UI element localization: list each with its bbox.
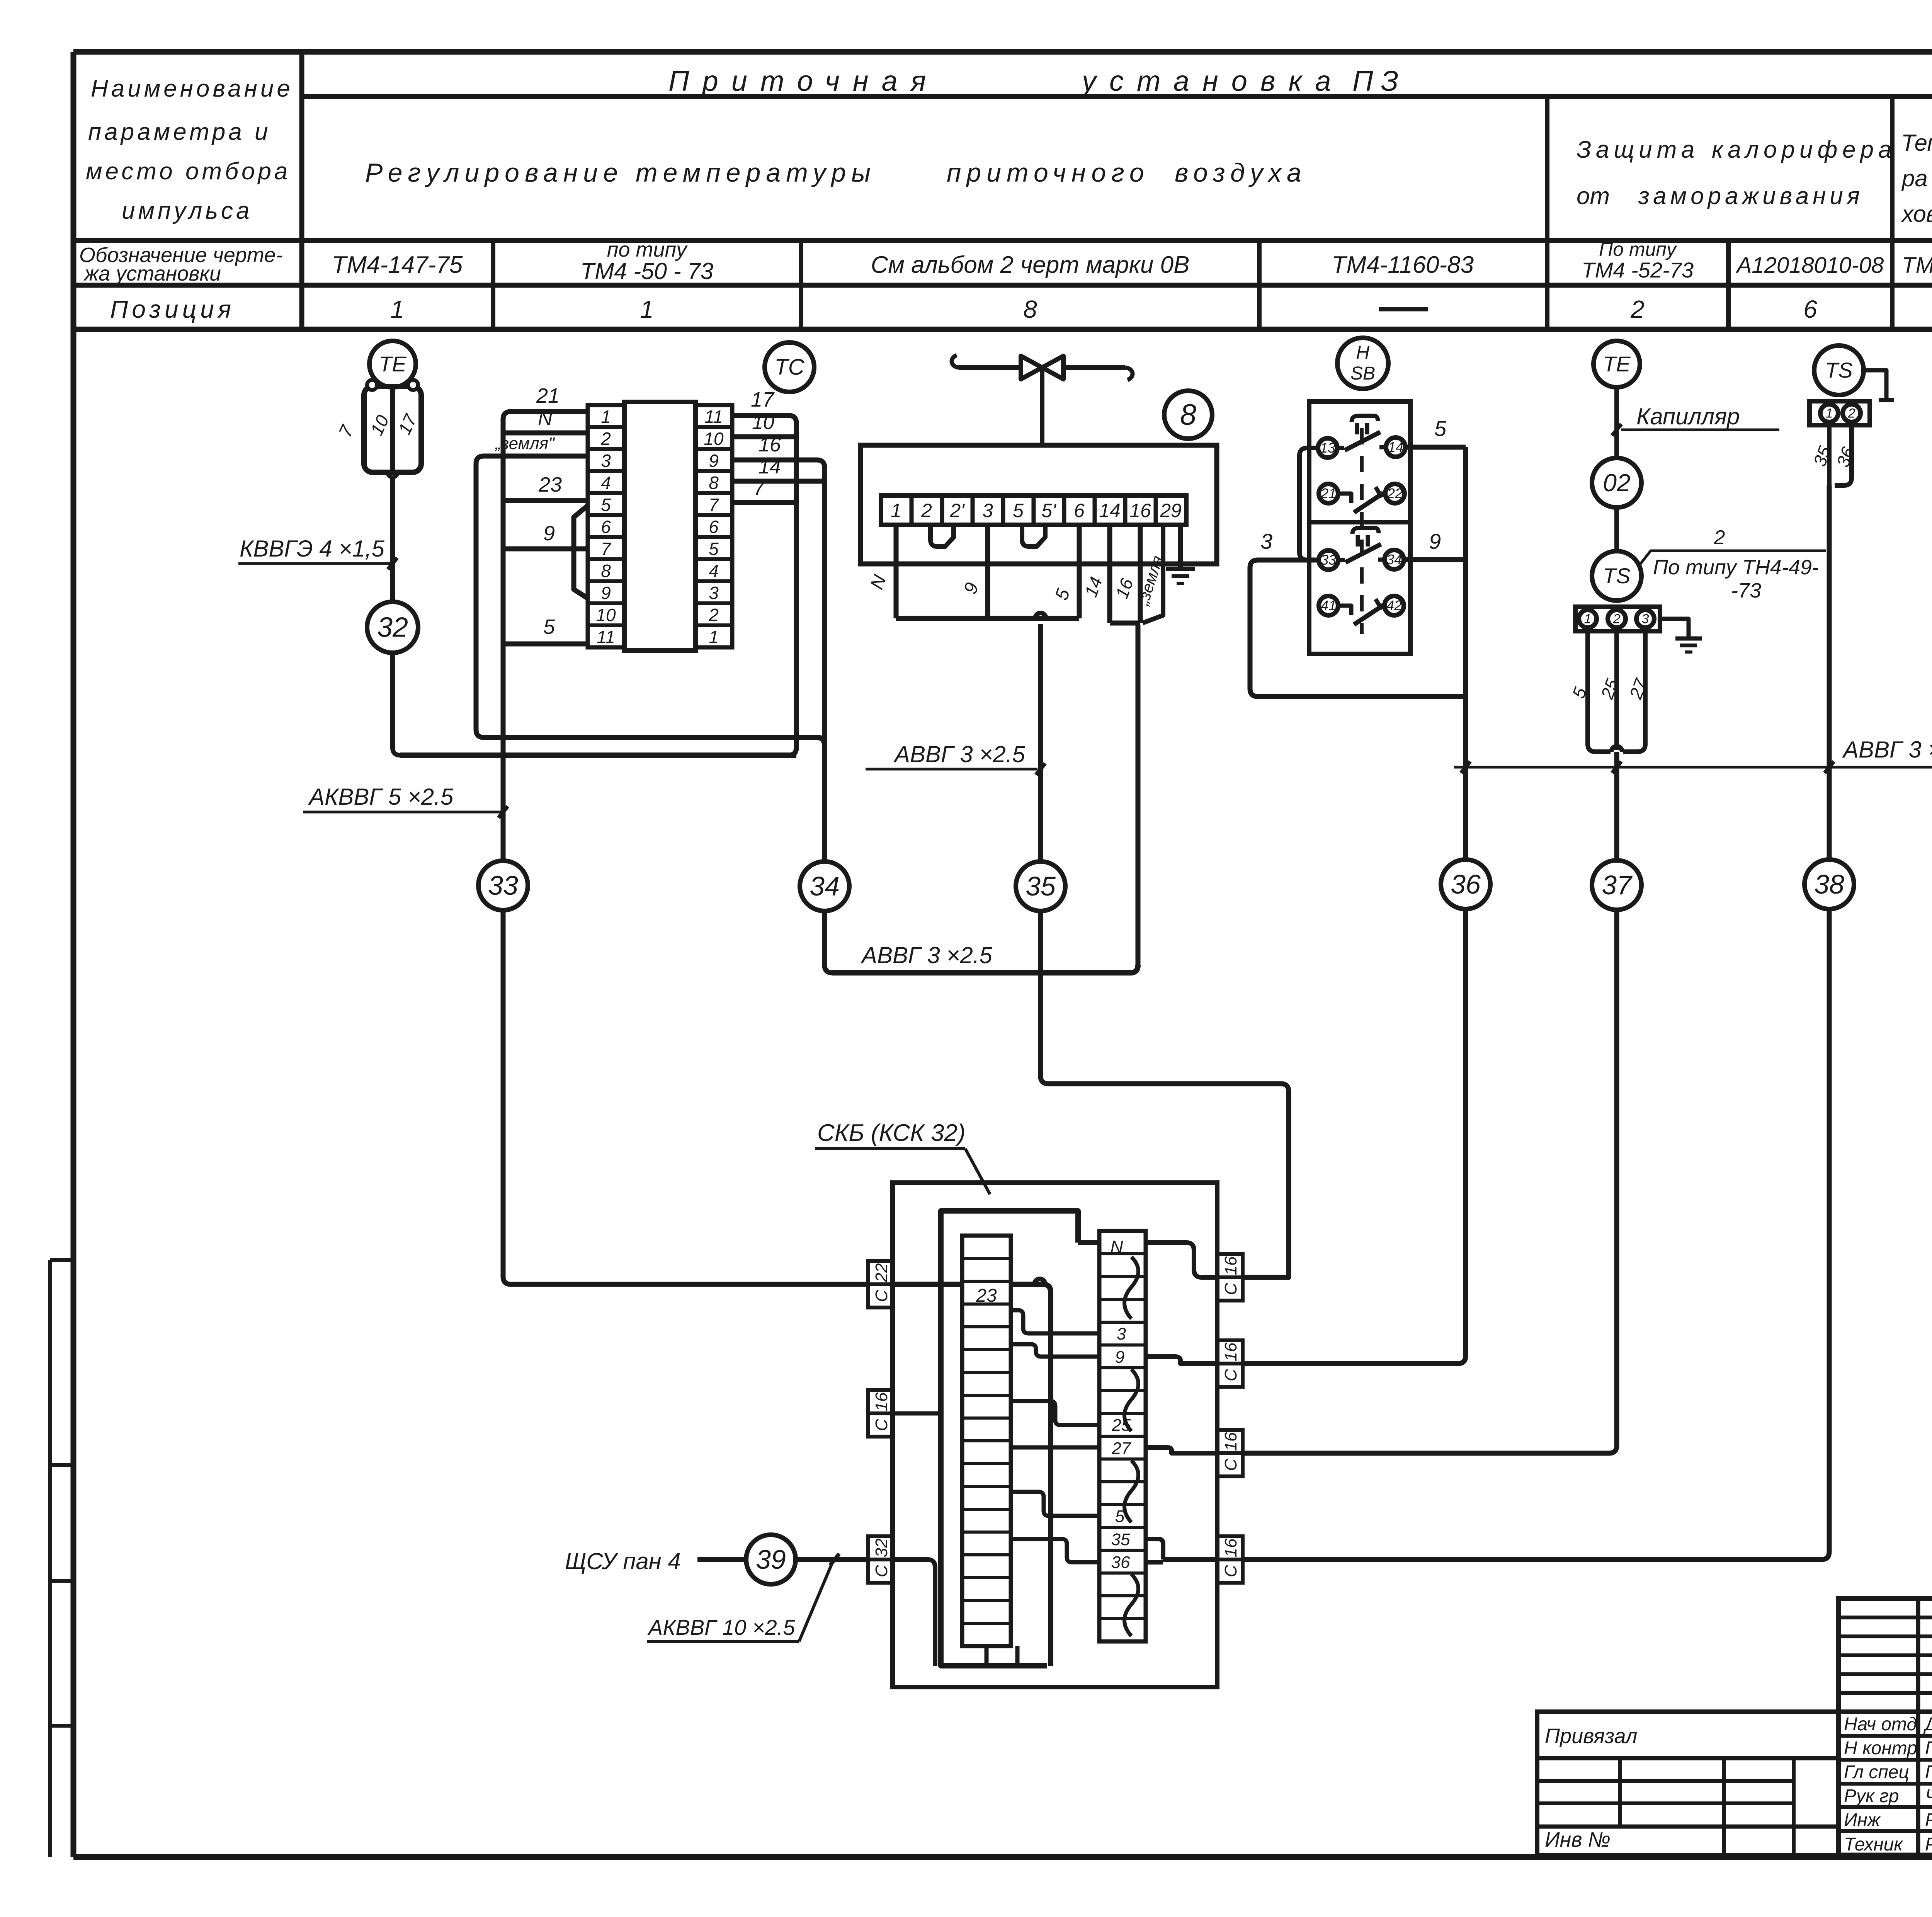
wire to circle 39 bbox=[697, 1557, 746, 1562]
svg-text:замораживания: замораживания bbox=[1638, 183, 1864, 209]
svg-text:16: 16 bbox=[1221, 1432, 1240, 1451]
cable circle 38 bbox=[1804, 860, 1854, 909]
svg-text:приточного: приточного bbox=[947, 158, 1150, 187]
svg-text:С: С bbox=[872, 1418, 891, 1431]
svg-text:См альбом 2 черт марки 0В: См альбом 2 черт марки 0В bbox=[871, 252, 1190, 278]
dash in position row bbox=[1379, 307, 1428, 312]
svg-text:6: 6 bbox=[1074, 500, 1085, 521]
svg-text:9: 9 bbox=[543, 522, 555, 545]
valve stem wire bbox=[1040, 368, 1044, 445]
wire 7 from TC right bbox=[732, 500, 796, 505]
svg-text:А12018010-08: А12018010-08 bbox=[1736, 253, 1884, 278]
crossing wire to 5 cell bbox=[1011, 1492, 1099, 1516]
svg-text:СКБ (КСК 32): СКБ (КСК 32) bbox=[817, 1120, 966, 1146]
ground symbol TS bbox=[1675, 637, 1702, 641]
svg-text:ТМ4-142-75: ТМ4-142-75 bbox=[1902, 253, 1932, 278]
svg-text:5: 5 bbox=[601, 495, 611, 515]
svg-text:С: С bbox=[1221, 1369, 1240, 1381]
svg-text:16: 16 bbox=[1129, 500, 1151, 521]
svg-text:Инв №: Инв № bbox=[1545, 1828, 1611, 1851]
wire 23 from TC pin5 bbox=[503, 498, 588, 503]
cable circle 32 bbox=[367, 602, 418, 653]
svg-text:АВВГ 3 ×2.5: АВВГ 3 ×2.5 bbox=[893, 741, 1025, 767]
svg-text:ТМ4-147-75: ТМ4-147-75 bbox=[332, 252, 463, 278]
svg-text:32: 32 bbox=[872, 1539, 891, 1558]
svg-text:Позиция: Позиция bbox=[110, 295, 235, 323]
svg-text:Долотов: Долотов bbox=[1923, 1714, 1932, 1735]
svg-text:Регулирование: Регулирование bbox=[365, 158, 623, 187]
pushbutton box upper bbox=[1309, 402, 1410, 522]
svg-text:5': 5' bbox=[1041, 500, 1056, 521]
TS right bracket mark bbox=[1864, 370, 1886, 398]
table grid bbox=[299, 52, 304, 329]
svg-text:7: 7 bbox=[335, 422, 358, 441]
wire cable-34 riser from 14-16 junction bbox=[1136, 625, 1141, 966]
strip bottom stub 2 bbox=[1015, 1646, 1020, 1666]
connector C22 left bbox=[868, 1261, 893, 1284]
svg-text:ЩСУ пан 4: ЩСУ пан 4 bbox=[565, 1548, 681, 1574]
box 8 outline bbox=[861, 445, 1217, 564]
svg-text:13: 13 bbox=[1320, 440, 1335, 456]
svg-text:3: 3 bbox=[982, 500, 993, 521]
svg-text:4: 4 bbox=[709, 561, 719, 581]
svg-text:калорифера: калорифера bbox=[1712, 136, 1896, 163]
wire земля from TC pin3 bbox=[476, 456, 588, 737]
svg-text:Родионова: Родионова bbox=[1925, 1834, 1932, 1855]
svg-text:2: 2 bbox=[1630, 295, 1645, 323]
title header cell bbox=[1838, 1596, 1932, 1601]
bundle wire horizontal upper bbox=[484, 737, 825, 745]
svg-text:42: 42 bbox=[1386, 598, 1402, 613]
wire cable-35 down from junction bbox=[1041, 624, 1289, 1277]
svg-text:3: 3 bbox=[1642, 612, 1649, 627]
svg-text:ховоде: ховоде bbox=[1901, 201, 1932, 227]
svg-text:С: С bbox=[872, 1289, 891, 1302]
contact 14 bbox=[1386, 438, 1405, 457]
contact 22 bbox=[1385, 484, 1405, 503]
svg-text:5: 5 bbox=[1434, 416, 1447, 441]
ground wire from block bbox=[1660, 619, 1689, 638]
connector C16 right 1 bbox=[1217, 1254, 1243, 1277]
svg-text:ТЕ: ТЕ bbox=[379, 352, 406, 376]
wire 9 from contact 34 bbox=[1404, 557, 1466, 562]
svg-text:35: 35 bbox=[1111, 1530, 1130, 1549]
wire cable-36 riser bbox=[1243, 447, 1466, 1364]
svg-text:5: 5 bbox=[543, 615, 555, 638]
title block staff table bbox=[1838, 1599, 1932, 1855]
svg-text:23: 23 bbox=[976, 1285, 997, 1306]
crossing wire to 9 cell bbox=[1011, 1344, 1099, 1357]
svg-text:ТМ4 -52-73: ТМ4 -52-73 bbox=[1582, 258, 1694, 282]
wire 3 from contact 33 around box bbox=[1250, 560, 1466, 696]
bracket joining TS wires bbox=[1588, 744, 1611, 752]
svg-text:1: 1 bbox=[709, 627, 719, 647]
connector C16 right 3 bbox=[1217, 1430, 1243, 1453]
svg-text:Приточная: Приточная bbox=[668, 65, 939, 97]
svg-text:41: 41 bbox=[1321, 598, 1336, 613]
svg-text:2': 2' bbox=[949, 500, 965, 521]
wire cable-37 riser bbox=[1243, 752, 1617, 1453]
svg-text:11: 11 bbox=[704, 407, 723, 427]
sensor TS middle bbox=[1592, 551, 1641, 601]
crossing wire to 3 cell bbox=[1011, 1310, 1099, 1333]
svg-text:Температу-: Температу- bbox=[1901, 130, 1932, 156]
svg-text:место отбора: место отбора bbox=[86, 158, 291, 185]
svg-text:34: 34 bbox=[1386, 552, 1402, 567]
svg-text:8: 8 bbox=[1023, 295, 1037, 323]
crossing wire to 27 cell bbox=[1011, 1445, 1099, 1450]
svg-text:N: N bbox=[538, 407, 553, 430]
svg-text:3: 3 bbox=[601, 451, 611, 471]
position circle 8 bbox=[1164, 391, 1212, 439]
connector C16 right 4 bbox=[1217, 1536, 1243, 1559]
mechanical link dashed bbox=[1360, 428, 1364, 634]
svg-text:16: 16 bbox=[1112, 575, 1138, 601]
svg-text:Попов: Попов bbox=[1925, 1738, 1932, 1759]
svg-text:22: 22 bbox=[872, 1263, 891, 1283]
svg-text:Инж: Инж bbox=[1844, 1810, 1881, 1830]
svg-text:1: 1 bbox=[601, 407, 611, 427]
wire N from TC pin2 bbox=[503, 431, 588, 436]
svg-text:14: 14 bbox=[1099, 500, 1121, 521]
svg-text:Рук гр: Рук гр bbox=[1844, 1786, 1899, 1806]
contact 42 bbox=[1384, 596, 1404, 615]
wire 23 through SKB bbox=[893, 1282, 962, 1287]
pривязал block bbox=[1537, 1712, 1838, 1855]
SKB right terminal strip bbox=[1099, 1231, 1146, 1641]
svg-text:параметра и: параметра и bbox=[88, 119, 271, 145]
wire 33 down to SKB C22 bbox=[503, 910, 868, 1284]
TS terminal block 1 2 3 bbox=[1575, 607, 1660, 631]
svg-text:2: 2 bbox=[1848, 406, 1855, 421]
wire 21 from TC pin1 bbox=[503, 412, 588, 755]
jumper under terminals 5-5prime bbox=[1022, 525, 1045, 546]
wire 32 down to bundle bbox=[393, 653, 400, 755]
wire 16 from cell9 bbox=[1138, 525, 1143, 623]
wire 9 from TC pin7 bbox=[503, 546, 588, 552]
svg-text:3: 3 bbox=[709, 583, 719, 603]
svg-text:29: 29 bbox=[1160, 500, 1182, 521]
C16 left stub bbox=[893, 1411, 941, 1416]
svg-text:установка: установка bbox=[1080, 65, 1344, 97]
C32 internal wire bbox=[893, 1559, 935, 1666]
jumper under terminals 2-2prime bbox=[930, 525, 954, 546]
svg-text:8: 8 bbox=[1180, 398, 1196, 431]
svg-text:По типу: По типу bbox=[1599, 238, 1677, 260]
S-curve continuation marks bbox=[1124, 1257, 1138, 1319]
wire 5 from contact 14 bbox=[1405, 445, 1466, 450]
svg-text:27: 27 bbox=[1112, 1439, 1131, 1458]
svg-text:10: 10 bbox=[366, 412, 393, 439]
cable circle 34 bbox=[800, 861, 849, 911]
svg-text:5: 5 bbox=[1013, 500, 1024, 521]
crossing wire to 25 cell bbox=[1011, 1401, 1099, 1425]
contact 34 bbox=[1384, 550, 1404, 569]
svg-text:Радовицкая: Радовицкая bbox=[1925, 1810, 1932, 1830]
svg-text:1: 1 bbox=[390, 295, 404, 323]
svg-text:36: 36 bbox=[1833, 444, 1859, 470]
svg-text:14: 14 bbox=[1388, 439, 1403, 455]
TC jumper pin5 to pin9 bbox=[574, 506, 588, 598]
wire cable-38 riser bbox=[1243, 485, 1829, 1559]
svg-text:36: 36 bbox=[1451, 869, 1481, 899]
svg-text:9: 9 bbox=[960, 580, 983, 597]
wires 35 36 from block bbox=[1827, 425, 1832, 485]
wire 36 cell to junction bbox=[1146, 1560, 1163, 1565]
svg-text:ТМ4-1160-83: ТМ4-1160-83 bbox=[1332, 252, 1474, 278]
wire N cell to C16-1 bbox=[1146, 1243, 1217, 1277]
svg-text:ТЕ: ТЕ bbox=[1603, 352, 1631, 376]
svg-text:10: 10 bbox=[704, 429, 724, 449]
sensor TE middle bbox=[1594, 341, 1640, 387]
wire down to 33 bbox=[501, 755, 506, 861]
svg-text:9: 9 bbox=[709, 451, 719, 471]
svg-text:16: 16 bbox=[1221, 1342, 1240, 1361]
svg-text:6: 6 bbox=[1803, 295, 1817, 323]
link wire 13 to 33 bbox=[1299, 448, 1319, 560]
join 14-16 wires bbox=[1110, 621, 1140, 626]
svg-text:Техник: Техник bbox=[1844, 1834, 1903, 1855]
svg-text:16: 16 bbox=[1221, 1538, 1240, 1557]
svg-text:Н контр.: Н контр. bbox=[1844, 1738, 1922, 1759]
svg-text:АКВВГ 5 ×2.5: АКВВГ 5 ×2.5 bbox=[308, 784, 454, 810]
svg-text:Н: Н bbox=[1356, 342, 1370, 363]
sensor TS right bbox=[1814, 346, 1864, 395]
svg-text:21: 21 bbox=[536, 384, 560, 407]
svg-text:Защита: Защита bbox=[1577, 136, 1699, 163]
contact 13 bbox=[1318, 438, 1337, 458]
pushbutton box lower bbox=[1309, 522, 1410, 654]
svg-text:ТS: ТS bbox=[1603, 564, 1631, 588]
SKB left terminal strip bbox=[962, 1236, 1011, 1646]
transducer circle 02 bbox=[1592, 458, 1641, 507]
svg-text:Нач отд: Нач отд bbox=[1844, 1714, 1917, 1735]
cable circle 39 bbox=[746, 1535, 796, 1584]
wire 9 from cell3 bbox=[985, 525, 990, 618]
wire 9 cell to C16-2 bbox=[1146, 1357, 1217, 1364]
svg-text:6: 6 bbox=[709, 517, 719, 537]
svg-text:воздуха: воздуха bbox=[1175, 158, 1307, 187]
svg-text:32: 32 bbox=[377, 612, 408, 643]
svg-text:-73: -73 bbox=[1731, 579, 1761, 602]
svg-text:2: 2 bbox=[708, 605, 719, 625]
ground stub from cell29 bbox=[1178, 525, 1183, 569]
TE sensor body bbox=[364, 386, 421, 472]
TS right terminal block bbox=[1810, 401, 1870, 425]
svg-text:Капилляр: Капилляр bbox=[1636, 403, 1740, 429]
svg-text:N: N bbox=[1110, 1237, 1123, 1257]
svg-text:С: С bbox=[1221, 1282, 1240, 1295]
cable circle 36 bbox=[1441, 860, 1490, 909]
bundle wire horizontal lower bbox=[400, 752, 796, 758]
svg-text:33: 33 bbox=[1321, 552, 1336, 568]
contact 21 bbox=[1319, 484, 1338, 503]
svg-text:жа установки: жа установки bbox=[83, 262, 221, 285]
svg-text:36: 36 bbox=[1111, 1553, 1130, 1572]
svg-text:3: 3 bbox=[1260, 529, 1272, 553]
svg-text:N: N bbox=[867, 572, 891, 592]
wire 17 from TC pin11 right bbox=[732, 415, 796, 755]
NC contact symbol 21-22 bbox=[1338, 494, 1351, 503]
svg-text:5: 5 bbox=[709, 539, 719, 559]
svg-text:1: 1 bbox=[891, 500, 901, 521]
wire 39 to C32 bbox=[796, 1557, 868, 1562]
svg-text:11: 11 bbox=[597, 627, 615, 647]
svg-text:35: 35 bbox=[1026, 871, 1056, 901]
contact 41 bbox=[1319, 596, 1338, 615]
wire 34 down to bottom run bbox=[825, 911, 832, 973]
svg-text:1: 1 bbox=[640, 295, 654, 323]
box 8 terminal strip bbox=[881, 495, 1186, 525]
svg-text:8: 8 bbox=[601, 561, 611, 581]
svg-text:38: 38 bbox=[1814, 869, 1844, 899]
svg-text:10: 10 bbox=[596, 605, 616, 625]
svg-text:6: 6 bbox=[601, 517, 611, 537]
svg-text:16: 16 bbox=[872, 1392, 891, 1411]
TC terminal strip columns bbox=[588, 405, 624, 647]
svg-text:7: 7 bbox=[601, 539, 611, 559]
svg-text:8: 8 bbox=[709, 473, 719, 493]
svg-text:ТС: ТС bbox=[774, 355, 804, 380]
wire TE down to 32 bbox=[390, 477, 395, 602]
wire 16 from TC right bbox=[732, 460, 825, 861]
svg-text:10: 10 bbox=[752, 411, 774, 434]
svg-text:23: 23 bbox=[538, 473, 562, 496]
svg-text:С: С bbox=[1221, 1458, 1240, 1471]
wire junction to C16-4 bbox=[1163, 1557, 1217, 1562]
svg-text:Гл спец: Гл спец bbox=[1844, 1762, 1909, 1783]
svg-text:АКВВГ 10 ×2.5: АКВВГ 10 ×2.5 bbox=[647, 1615, 795, 1639]
contact 33 bbox=[1319, 550, 1338, 570]
cable circle 37 bbox=[1592, 860, 1641, 910]
svg-text:2: 2 bbox=[600, 429, 611, 449]
wire 5 from cell6 bbox=[1077, 525, 1082, 618]
svg-text:16: 16 bbox=[1221, 1256, 1240, 1275]
svg-text:Попов: Попов bbox=[1925, 1762, 1932, 1783]
svg-text:3: 3 bbox=[1117, 1325, 1126, 1343]
NO contact symbol 13-14 bbox=[1337, 446, 1344, 450]
left margin inventory strip bbox=[48, 1260, 52, 1857]
svg-text:14: 14 bbox=[1081, 574, 1106, 600]
svg-text:7: 7 bbox=[753, 477, 765, 499]
drawing frame border bbox=[73, 49, 1932, 55]
svg-text:Наименование: Наименование bbox=[91, 75, 293, 102]
svg-text:21: 21 bbox=[1320, 485, 1336, 501]
svg-text:1: 1 bbox=[1584, 612, 1592, 627]
svg-text:37: 37 bbox=[1602, 870, 1633, 900]
svg-text:КВВГЭ 4 ×1,5: КВВГЭ 4 ×1,5 bbox=[240, 536, 384, 562]
svg-text:ТМ4 -50 - 73: ТМ4 -50 - 73 bbox=[580, 258, 713, 284]
sensor TC (temperature controller) bbox=[765, 342, 814, 392]
svg-text:от: от bbox=[1577, 183, 1610, 209]
bottom cable run 34 to 8-box wires bbox=[832, 970, 1130, 976]
wire 14 from TC right bbox=[732, 479, 825, 484]
svg-text:2: 2 bbox=[1613, 612, 1621, 627]
valve symbol bbox=[959, 365, 1125, 370]
connector C16 right 2 bbox=[1217, 1340, 1243, 1364]
svg-text:34: 34 bbox=[810, 871, 840, 901]
svg-text:2: 2 bbox=[1714, 526, 1725, 549]
svg-text:2: 2 bbox=[921, 500, 932, 521]
svg-text:17: 17 bbox=[751, 388, 775, 411]
wire 5 from TC pin11 bbox=[503, 642, 588, 647]
cable circle 33 bbox=[478, 861, 528, 910]
SKB device outline bbox=[941, 1211, 1078, 1666]
connector C32 left bbox=[868, 1536, 893, 1559]
svg-text:39: 39 bbox=[756, 1544, 786, 1575]
svg-text:ТS: ТS bbox=[1825, 358, 1853, 382]
wires 5 25 27 from TS block bbox=[1585, 631, 1590, 744]
SKB outer box bbox=[893, 1183, 1217, 1687]
wire 27 cell to C16-3 bbox=[1146, 1447, 1217, 1453]
wire device to N cell bbox=[1078, 1240, 1099, 1245]
svg-text:1: 1 bbox=[1826, 406, 1833, 421]
wire 02 to TS bbox=[1614, 507, 1619, 551]
svg-text:SB: SB bbox=[1350, 363, 1375, 384]
crossing wire to 36 cell bbox=[1011, 1539, 1099, 1562]
svg-text:импульса: импульса bbox=[122, 197, 252, 224]
connector C16 left bbox=[868, 1390, 893, 1413]
svg-text:Чубова: Чубова bbox=[1925, 1786, 1932, 1806]
svg-text:Привязал: Привязал bbox=[1545, 1725, 1637, 1748]
svg-text:По типу ТН4-49-: По типу ТН4-49- bbox=[1653, 556, 1819, 579]
svg-text:5: 5 bbox=[1051, 586, 1074, 603]
cable circle 35 bbox=[1016, 861, 1065, 911]
NO contact symbol 33-34 bbox=[1338, 558, 1345, 562]
svg-text:ПЗ: ПЗ bbox=[1352, 65, 1406, 97]
wire 35 cell to junction bbox=[1146, 1539, 1163, 1559]
svg-text:АВВГ 3 ×2.5: АВВГ 3 ×2.5 bbox=[1842, 737, 1932, 763]
svg-text:33: 33 bbox=[488, 870, 518, 901]
svg-text:„земля": „земля" bbox=[495, 434, 555, 453]
svg-text:С: С bbox=[872, 1565, 891, 1577]
wire 10 from TC right bbox=[732, 434, 796, 439]
svg-text:АВВГ 3 ×2.5: АВВГ 3 ×2.5 bbox=[861, 942, 992, 968]
svg-text:ра в возду-: ра в возду- bbox=[1901, 165, 1932, 191]
svg-text:9: 9 bbox=[1429, 529, 1441, 553]
strip bottom stub bbox=[985, 1646, 989, 1666]
svg-text:температуры: температуры bbox=[636, 158, 876, 187]
svg-text:по типу: по типу bbox=[607, 238, 688, 261]
svg-text:7: 7 bbox=[709, 495, 719, 515]
svg-text:22: 22 bbox=[1387, 485, 1403, 501]
svg-text:16: 16 bbox=[759, 434, 781, 456]
sensor TE (duct temperature element) bbox=[369, 341, 416, 387]
bus joining N 9 5 wires bbox=[896, 616, 1079, 621]
NC contact symbol 41-42 bbox=[1338, 606, 1351, 615]
svg-text:4: 4 bbox=[601, 473, 611, 493]
pushbutton station H SB circle bbox=[1337, 338, 1388, 389]
ground symbol bbox=[1166, 567, 1195, 571]
leader and label 2 По типу ТН4-49-73 bbox=[1639, 551, 1826, 565]
svg-text:14: 14 bbox=[759, 456, 781, 478]
wire 14 from cell8 bbox=[1107, 525, 1112, 623]
svg-text:9: 9 bbox=[1115, 1348, 1124, 1367]
svg-text:02: 02 bbox=[1603, 469, 1630, 497]
svg-text:С: С bbox=[1221, 1565, 1240, 1577]
svg-text:9: 9 bbox=[601, 583, 611, 603]
wire N from cell1 bbox=[894, 525, 899, 618]
wire TE to 02 bbox=[1614, 387, 1619, 458]
wire земля from cell29 bbox=[1143, 525, 1163, 623]
svg-text:17: 17 bbox=[394, 411, 421, 438]
